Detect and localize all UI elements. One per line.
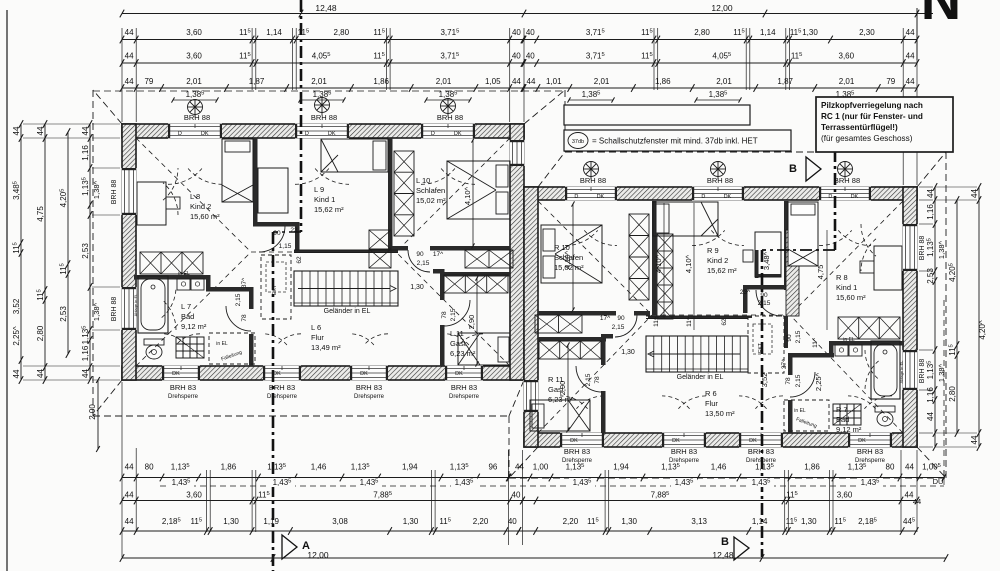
svg-text:11^: 11^ <box>812 337 819 348</box>
svg-text:L 10: L 10 <box>416 176 430 185</box>
svg-text:11^: 11^ <box>686 316 693 327</box>
svg-text:DK: DK <box>360 371 368 377</box>
svg-text:BRH 88: BRH 88 <box>111 297 118 322</box>
section marker A <box>282 535 297 559</box>
svg-text:2,01: 2,01 <box>594 77 610 86</box>
L9 bed <box>321 139 388 172</box>
bottom dimension row 1 right <box>509 477 944 479</box>
svg-text:DK: DK <box>724 194 732 200</box>
door arc L8 <box>259 226 285 252</box>
svg-text:1,30: 1,30 <box>621 349 635 356</box>
svg-text:2,01: 2,01 <box>839 77 855 86</box>
svg-text:90: 90 <box>786 334 793 342</box>
svg-text:37^: 37^ <box>781 358 788 369</box>
svg-text:6,23 m²: 6,23 m² <box>548 395 574 404</box>
svg-text:DK: DK <box>597 194 605 200</box>
right dimension column 2 <box>956 200 958 433</box>
roof hip diagonals at corners <box>93 90 946 478</box>
R7 basins <box>849 345 862 356</box>
L9 wardrobe <box>369 230 391 268</box>
right dimension column 3 <box>978 187 980 447</box>
hall wardrobe <box>465 250 513 268</box>
L11 wardrobe <box>444 275 508 293</box>
L7 shower grid <box>176 337 204 358</box>
svg-text:BRH 88: BRH 88 <box>184 113 210 122</box>
svg-text:DK: DK <box>455 371 463 377</box>
svg-text:R 7: R 7 <box>836 405 848 414</box>
left dimension column 4 <box>89 124 91 380</box>
window width labels 1,43 bottom <box>160 485 944 487</box>
svg-text:L 11: L 11 <box>450 329 464 338</box>
svg-text:44: 44 <box>81 369 90 378</box>
svg-text:= Schallschutzfenster mit mind: = Schallschutzfenster mit mind. 37db ink… <box>592 137 758 146</box>
right dimension column 1 <box>934 187 936 447</box>
svg-text:B: B <box>789 163 797 175</box>
R10 wardrobe <box>629 214 649 300</box>
svg-text:44: 44 <box>125 77 134 86</box>
window swing arcs left building <box>168 169 202 185</box>
svg-text:BRH 83: BRH 83 <box>451 383 477 392</box>
svg-text:4,10^: 4,10^ <box>463 186 472 205</box>
svg-text:17^: 17^ <box>433 251 444 258</box>
window R7 bottom <box>848 433 892 448</box>
svg-text:2,15: 2,15 <box>585 373 592 386</box>
svg-text:44: 44 <box>926 189 935 198</box>
svg-text:2,15: 2,15 <box>795 374 802 387</box>
svg-text:1,94: 1,94 <box>402 463 418 472</box>
R8 bed <box>788 202 818 266</box>
svg-text:1,30: 1,30 <box>802 28 818 37</box>
svg-text:78: 78 <box>441 311 448 319</box>
drawing frame left edge <box>6 10 8 571</box>
svg-text:1,14: 1,14 <box>760 28 776 37</box>
svg-text:L 9: L 9 <box>314 185 324 194</box>
stairs right building <box>646 336 748 372</box>
svg-text:1,86: 1,86 <box>221 463 237 472</box>
svg-text:1,46: 1,46 <box>311 463 327 472</box>
svg-text:15,60 m²: 15,60 m² <box>190 212 220 221</box>
svg-text:3,08: 3,08 <box>332 517 348 526</box>
svg-text:D: D <box>574 194 578 200</box>
L8 bed <box>222 139 253 202</box>
svg-text:44: 44 <box>512 77 521 86</box>
svg-text:44: 44 <box>12 126 21 135</box>
connector lines to building left <box>23 124 120 380</box>
svg-text:2,15: 2,15 <box>417 260 430 267</box>
svg-text:DK: DK <box>201 131 209 137</box>
interior walls left building <box>253 138 258 226</box>
svg-text:79: 79 <box>886 77 895 86</box>
svg-text:44: 44 <box>125 28 134 37</box>
svg-text:23: 23 <box>290 227 298 234</box>
svg-text:Drehsperre: Drehsperre <box>168 394 199 400</box>
svg-text:3,52: 3,52 <box>760 373 769 388</box>
R10 double bed <box>541 225 602 283</box>
left building outer wall right / party wall <box>510 124 524 380</box>
interior roof hip lines right <box>538 201 903 433</box>
door arc L11 <box>444 300 470 326</box>
window R10 top <box>565 187 617 201</box>
svg-text:BRH 88: BRH 88 <box>919 359 926 384</box>
svg-text:BRH 83: BRH 83 <box>671 447 697 456</box>
svg-text:90: 90 <box>760 292 768 299</box>
svg-text:44: 44 <box>125 463 134 472</box>
svg-text:B: B <box>721 536 729 548</box>
R8 wardrobe <box>838 317 900 339</box>
legend 37db box <box>564 130 791 151</box>
svg-text:80: 80 <box>886 463 895 472</box>
svg-text:44: 44 <box>36 126 45 135</box>
svg-text:40: 40 <box>512 28 521 37</box>
svg-text:2,53: 2,53 <box>59 306 68 322</box>
R11 bed <box>530 400 590 431</box>
svg-text:2,53: 2,53 <box>926 268 935 284</box>
svg-text:2,20: 2,20 <box>563 517 579 526</box>
R7 shaft dashed <box>784 400 829 431</box>
svg-text:1,38^: 1,38^ <box>92 180 101 199</box>
door arc R10/hall <box>615 315 637 337</box>
svg-text:1,14: 1,14 <box>752 517 768 526</box>
svg-text:DK: DK <box>858 438 866 444</box>
window R8 right <box>903 224 918 271</box>
svg-text:78: 78 <box>241 314 248 322</box>
top dimension row 2 right <box>524 62 917 64</box>
svg-text:1,30: 1,30 <box>621 517 637 526</box>
svg-text:DK: DK <box>172 371 180 377</box>
R7 shower grid <box>833 404 861 425</box>
empty note rectangle <box>564 105 750 125</box>
svg-text:1,00: 1,00 <box>533 463 549 472</box>
svg-text:13,49 m²: 13,49 m² <box>311 343 341 352</box>
svg-text:Geländer in EL: Geländer in EL <box>324 308 371 315</box>
svg-text:Kind 2: Kind 2 <box>707 256 728 265</box>
svg-text:1,38^: 1,38^ <box>937 363 946 382</box>
svg-text:Drehsperre: Drehsperre <box>449 394 480 400</box>
R7 bathtub <box>871 341 900 399</box>
svg-text:1,16: 1,16 <box>81 345 90 361</box>
window vent symbols top right building <box>584 162 599 180</box>
svg-text:1,46: 1,46 <box>711 463 727 472</box>
svg-text:12,48: 12,48 <box>712 550 734 560</box>
svg-text:96: 96 <box>488 463 497 472</box>
svg-text:9,12 m²: 9,12 m² <box>181 322 207 331</box>
svg-text:DK: DK <box>454 131 462 137</box>
door arc bad <box>226 306 251 331</box>
svg-text:DK: DK <box>672 438 680 444</box>
svg-text:2,01: 2,01 <box>311 77 327 86</box>
svg-text:2,20: 2,20 <box>473 517 489 526</box>
svg-text:DK: DK <box>273 371 281 377</box>
svg-text:44: 44 <box>125 517 134 526</box>
svg-text:80: 80 <box>145 463 154 472</box>
svg-text:Schlafen: Schlafen <box>416 186 445 195</box>
L7 shaft dashed <box>209 333 255 364</box>
section marker B bottom <box>734 537 749 560</box>
svg-text:R 9: R 9 <box>707 246 719 255</box>
bottom dimension row 3 right <box>519 530 916 532</box>
svg-text:12,00: 12,00 <box>711 3 733 13</box>
window L7 bottom <box>162 366 200 381</box>
svg-text:44: 44 <box>970 435 979 444</box>
svg-text:3,60: 3,60 <box>186 491 202 500</box>
svg-text:3,60: 3,60 <box>837 491 853 500</box>
svg-text:12,48: 12,48 <box>315 3 337 13</box>
svg-text:BRH 83: BRH 83 <box>269 383 295 392</box>
svg-text:Drehsperre: Drehsperre <box>354 394 385 400</box>
left building outer wall left <box>122 124 136 380</box>
L9 desk <box>258 168 288 213</box>
top dimension row 3 left <box>122 87 523 89</box>
svg-text:2,80: 2,80 <box>694 28 710 37</box>
svg-text:11^: 11^ <box>653 316 660 327</box>
svg-text:78: 78 <box>785 377 792 385</box>
svg-text:2,15: 2,15 <box>450 308 457 321</box>
svg-text:79: 79 <box>144 77 153 86</box>
section line A <box>300 0 303 232</box>
svg-text:DK: DK <box>328 131 336 137</box>
extension lines bottom <box>122 382 944 557</box>
svg-text:N: N <box>921 0 961 31</box>
svg-text:BRH 83: BRH 83 <box>748 447 774 456</box>
svg-text:90: 90 <box>416 251 424 258</box>
stairs left building <box>294 271 398 306</box>
svg-text:44: 44 <box>515 463 524 472</box>
window L9 top <box>295 124 349 139</box>
window L11 bottom <box>445 366 483 381</box>
svg-text:4,20^: 4,20^ <box>978 320 987 340</box>
svg-text:DK: DK <box>570 438 578 444</box>
svg-text:1,30: 1,30 <box>223 517 239 526</box>
svg-text:15,60 m²: 15,60 m² <box>836 293 866 302</box>
svg-text:90: 90 <box>273 230 281 237</box>
svg-text:3,52: 3,52 <box>12 298 21 314</box>
L8 wardrobe <box>140 252 203 274</box>
svg-text:40: 40 <box>512 491 521 500</box>
top dimension row 1 right <box>524 39 917 41</box>
hall wardrobe right <box>535 315 582 333</box>
top dimension row 2 left <box>122 62 523 64</box>
R9 desk <box>755 232 781 277</box>
L8 desk <box>137 182 166 225</box>
right building outer wall bottom <box>524 433 917 447</box>
R7 wc <box>875 406 895 412</box>
svg-text:2,90: 2,90 <box>467 315 476 330</box>
extension lines top <box>122 8 917 185</box>
svg-text:90: 90 <box>617 315 625 322</box>
svg-text:D: D <box>701 194 705 200</box>
R11 wardrobe <box>539 341 601 359</box>
svg-text:BRH 88: BRH 88 <box>111 180 118 205</box>
window R8 top <box>819 187 871 201</box>
interior dim L10 <box>472 140 474 246</box>
top overall dimension line <box>122 13 933 15</box>
svg-text:4,75: 4,75 <box>36 206 45 222</box>
EKT shaft <box>261 255 291 319</box>
EKT shaft right <box>748 316 784 373</box>
svg-text:2,30: 2,30 <box>859 28 875 37</box>
svg-text:R 6: R 6 <box>705 389 717 398</box>
svg-text:1,14: 1,14 <box>266 28 282 37</box>
svg-text:Terrassentürflügel!): Terrassentürflügel!) <box>821 123 898 132</box>
left dimension column 1 <box>20 124 22 380</box>
svg-text:Ablage in EL: Ablage in EL <box>133 293 138 316</box>
door arc R11 <box>576 366 602 392</box>
svg-text:1,16: 1,16 <box>926 204 935 220</box>
svg-text:D: D <box>431 131 435 137</box>
svg-text:3,48^: 3,48^ <box>762 251 771 270</box>
svg-text:DK: DK <box>749 438 757 444</box>
svg-text:in EL: in EL <box>843 337 855 343</box>
svg-text:1,05: 1,05 <box>485 77 501 86</box>
svg-text:44: 44 <box>926 412 935 421</box>
bottom dimension row 1 left <box>122 477 508 479</box>
svg-text:2,80: 2,80 <box>36 325 45 341</box>
bottom dimension row 3 left <box>122 530 519 532</box>
svg-text:44: 44 <box>125 491 134 500</box>
door arc L10/hall <box>408 250 430 272</box>
svg-text:2,80: 2,80 <box>948 386 957 402</box>
svg-text:(für gesamtes Geschoss): (für gesamtes Geschoss) <box>821 134 913 143</box>
svg-text:44: 44 <box>906 52 915 61</box>
svg-text:23^: 23^ <box>740 289 751 296</box>
svg-text:40: 40 <box>526 52 535 61</box>
svg-text:15,62 m²: 15,62 m² <box>707 266 737 275</box>
top dimension row 3 right <box>524 87 917 89</box>
svg-text:4,10^: 4,10^ <box>563 250 572 269</box>
svg-text:2,00: 2,00 <box>88 404 97 420</box>
R9 bed <box>653 202 718 236</box>
window swing arcs right building <box>565 230 598 245</box>
svg-text:Flur: Flur <box>705 399 718 408</box>
L7 wc <box>144 339 164 345</box>
roof overhang outline left building <box>93 90 565 478</box>
svg-text:44: 44 <box>527 77 536 86</box>
window L6 bottom left <box>263 366 301 381</box>
svg-text:2,53: 2,53 <box>81 243 90 259</box>
window R11 left <box>524 380 539 412</box>
svg-text:6,23 m²: 6,23 m² <box>450 349 476 358</box>
svg-text:BRH 83: BRH 83 <box>170 383 196 392</box>
Pilzkopf note box <box>816 97 953 152</box>
svg-text:Kind 1: Kind 1 <box>836 283 857 292</box>
svg-text:2,25^: 2,25^ <box>814 372 823 391</box>
svg-text:DÜ: DÜ <box>933 477 944 486</box>
svg-text:40: 40 <box>508 517 517 526</box>
svg-text:44: 44 <box>81 126 90 135</box>
interior dim R10 <box>572 204 574 310</box>
svg-text:15,02 m²: 15,02 m² <box>416 196 446 205</box>
svg-text:44: 44 <box>905 463 914 472</box>
svg-text:1,30: 1,30 <box>801 517 817 526</box>
connector lines to building right <box>919 187 977 447</box>
interior walls right building <box>784 201 789 290</box>
bottom dimension row 2 right <box>523 500 918 502</box>
svg-text:2,01: 2,01 <box>716 77 732 86</box>
svg-text:37^: 37^ <box>241 277 248 288</box>
svg-text:1,87: 1,87 <box>249 77 265 86</box>
R8 installation wall <box>786 230 799 316</box>
svg-text:44: 44 <box>36 369 45 378</box>
svg-text:DK: DK <box>851 194 859 200</box>
R9 wardrobe <box>657 234 673 319</box>
svg-text:2,15: 2,15 <box>235 293 242 306</box>
window R6 bottom left <box>662 433 706 448</box>
svg-text:BRH 88: BRH 88 <box>707 176 733 185</box>
svg-text:Kind 2: Kind 2 <box>190 202 211 211</box>
svg-text:9,12 m²: 9,12 m² <box>836 425 862 434</box>
svg-text:44: 44 <box>906 77 915 86</box>
svg-text:44: 44 <box>125 52 134 61</box>
svg-text:4,75: 4,75 <box>816 265 825 280</box>
svg-text:2,90: 2,90 <box>558 381 567 396</box>
door arc R7 bad <box>790 372 815 397</box>
svg-text:Bad: Bad <box>181 312 194 321</box>
svg-text:2,01: 2,01 <box>186 77 202 86</box>
svg-text:R 10: R 10 <box>554 243 570 252</box>
right building outer wall left / party wall <box>524 187 538 447</box>
svg-text:17^: 17^ <box>600 315 611 322</box>
svg-text:1,16: 1,16 <box>926 387 935 403</box>
svg-text:1,01: 1,01 <box>546 77 562 86</box>
svg-text:Flur: Flur <box>311 333 324 342</box>
svg-text:4,10^: 4,10^ <box>684 254 693 273</box>
svg-text:3,60: 3,60 <box>186 52 202 61</box>
svg-text:Geländer in EL: Geländer in EL <box>677 374 724 381</box>
svg-text:1,86: 1,86 <box>804 463 820 472</box>
svg-text:62: 62 <box>296 256 303 264</box>
svg-text:BRH 83: BRH 83 <box>857 447 883 456</box>
L7 bathtub <box>138 276 168 333</box>
bottom dimension row 2 left <box>122 500 523 502</box>
svg-text:1,16: 1,16 <box>81 145 90 161</box>
window R9 top <box>692 187 744 201</box>
R9 desk nook walls <box>755 250 759 278</box>
window L6 bottom right <box>350 366 388 381</box>
window R7 right <box>903 350 918 390</box>
svg-text:RC 1 (nur für Fenster- und: RC 1 (nur für Fenster- und <box>821 112 923 121</box>
door arc R9 <box>756 290 782 316</box>
svg-text:15,62 m²: 15,62 m² <box>314 205 344 214</box>
svg-text:44: 44 <box>970 189 979 198</box>
left dimension column 2 <box>44 124 46 380</box>
svg-text:2,01: 2,01 <box>436 77 452 86</box>
svg-text:37db: 37db <box>572 139 584 145</box>
svg-text:L 6: L 6 <box>311 323 321 332</box>
window R11 bottom <box>560 433 604 448</box>
svg-text:in EL: in EL <box>178 271 190 277</box>
svg-text:1,94: 1,94 <box>613 463 629 472</box>
svg-text:3,60: 3,60 <box>186 28 202 37</box>
left building outer wall top <box>122 124 524 138</box>
svg-text:BRH 83: BRH 83 <box>356 383 382 392</box>
interior dim L11 <box>476 278 478 364</box>
svg-text:D: D <box>178 131 182 137</box>
svg-text:44: 44 <box>12 369 21 378</box>
svg-text:2,15: 2,15 <box>612 324 625 331</box>
right building outer wall top <box>524 187 917 200</box>
svg-text:1,30: 1,30 <box>410 284 424 291</box>
L10 wardrobe <box>394 151 414 236</box>
svg-text:BRH 88: BRH 88 <box>834 176 860 185</box>
window L10 right <box>510 140 525 166</box>
section line B <box>834 150 837 250</box>
svg-text:2,15: 2,15 <box>795 330 802 343</box>
svg-text:BRH 88: BRH 88 <box>311 113 337 122</box>
svg-text:Bad: Bad <box>836 415 849 424</box>
svg-text:2,15: 2,15 <box>758 300 771 307</box>
R8 desk <box>874 246 902 290</box>
svg-text:3,13: 3,13 <box>691 517 707 526</box>
